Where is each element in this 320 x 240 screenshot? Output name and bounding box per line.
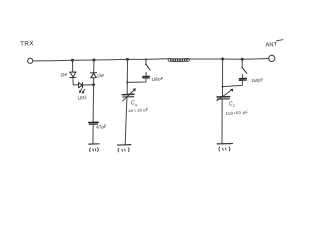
node C4 connector junction bbox=[126, 81, 128, 83]
switch S2 blade bbox=[243, 69, 247, 74]
switch S1 stub from tap bbox=[145, 60, 147, 65]
wire C4 to ground bbox=[125, 97, 127, 144]
terminal TRX bbox=[28, 58, 33, 63]
wire S1 to capacitor 150pF (middle) bbox=[145, 72, 147, 76]
wire capacitor 150pF (right) down and left to node D branch bbox=[223, 81, 243, 87]
LED D3 (pointing right) bbox=[79, 83, 83, 88]
wire node C down to trimmer C4 bbox=[126, 59, 128, 94]
switch S2 stub from node E bbox=[241, 59, 243, 67]
wire node F down to capacitor 47pF bbox=[92, 85, 95, 122]
wire node B to node C bbox=[94, 58, 128, 61]
terminal ANT bbox=[269, 55, 275, 61]
svg-text:LED: LED bbox=[77, 95, 87, 101]
wire inductor to node D bbox=[190, 58, 223, 60]
switch S1 blade bbox=[147, 65, 150, 70]
svg-text:40 t 30 pF: 40 t 30 pF bbox=[128, 107, 149, 113]
node F junction bbox=[92, 83, 95, 86]
wire node A down to diode D1 bbox=[72, 60, 74, 72]
wire LED to node F bbox=[83, 84, 94, 86]
wire node D to node E bbox=[223, 58, 243, 60]
node C junction bbox=[126, 58, 129, 61]
wire capacitor 47pF to ground bbox=[92, 125, 94, 144]
capacitor 150pF (middle) bbox=[143, 76, 149, 78]
node C2 connector junction bbox=[222, 86, 224, 88]
svg-text:4: 4 bbox=[135, 103, 137, 107]
wire S2 to capacitor 150pF (right) bbox=[242, 75, 244, 79]
capacitor 47pF bbox=[89, 122, 98, 124]
svg-text:150pF: 150pF bbox=[251, 77, 264, 83]
wire node C to switch S1 tap bbox=[128, 58, 147, 60]
node S1 tap bbox=[145, 59, 147, 61]
label TRX bbox=[20, 40, 35, 47]
ground (left) bbox=[89, 144, 99, 152]
trimmer capacitor C2 bbox=[217, 89, 233, 100]
diode D1 (Ge, pointing down) bbox=[70, 72, 76, 78]
node B junction bbox=[93, 59, 96, 62]
LED arrows bbox=[80, 89, 85, 93]
wire capacitor 150pF down and left to node C branch bbox=[128, 78, 147, 82]
ground (right) bbox=[217, 144, 232, 152]
ground (middle) bbox=[117, 145, 130, 152]
svg-text:150pF: 150pF bbox=[151, 76, 164, 82]
svg-text:2: 2 bbox=[233, 104, 235, 108]
wire node B down to diode D2 bbox=[93, 60, 95, 72]
label C2 bbox=[229, 101, 235, 108]
label C4 bbox=[131, 101, 137, 108]
inductor L1 bbox=[168, 58, 190, 61]
svg-text:47pF: 47pF bbox=[96, 124, 107, 130]
wire C2 to ground bbox=[221, 100, 223, 144]
svg-text:Ge: Ge bbox=[60, 72, 68, 79]
svg-text:ANT: ANT bbox=[265, 42, 277, 49]
wire D2 to node F bbox=[93, 78, 95, 85]
wire main TRX to node A bbox=[33, 59, 72, 62]
svg-text:150+60 pF: 150+60 pF bbox=[225, 109, 248, 116]
trimmer capacitor C4 bbox=[122, 89, 135, 101]
wire D1 to LED bend bbox=[73, 78, 79, 85]
node E junction bbox=[241, 58, 244, 61]
wire S1 tap to inductor bbox=[146, 58, 168, 61]
wire node E to ANT terminal bbox=[242, 58, 268, 61]
diode D2 (Ge, pointing up) bbox=[90, 73, 96, 78]
node D junction bbox=[221, 58, 224, 61]
wire node D down to trimmer C2 bbox=[222, 59, 224, 96]
capacitor 150pF (right) bbox=[239, 78, 246, 80]
switch S1 pivot dot bbox=[145, 64, 147, 66]
label ANT bbox=[265, 40, 283, 49]
svg-text:TRX: TRX bbox=[20, 40, 35, 47]
node A junction bbox=[71, 59, 74, 62]
switch S2 pivot dot bbox=[241, 67, 243, 69]
wire node A to node B bbox=[73, 59, 95, 61]
svg-text:Ge: Ge bbox=[97, 73, 105, 80]
